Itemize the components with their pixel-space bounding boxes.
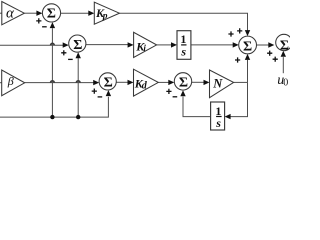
svg-text:s: s — [215, 116, 221, 130]
wire N to node — [234, 81, 248, 83]
gain block N — [210, 70, 234, 98]
wire integrator to S5 — [191, 44, 233, 46]
wire S3 to Kd — [116, 81, 128, 83]
wire y input row4 to S3 minus — [0, 97, 108, 117]
wire S2 to Ki — [86, 44, 128, 46]
arrowhead into S5 bottom — [245, 54, 250, 60]
arrowhead into S6 bottom — [281, 51, 286, 57]
arrowhead into S4 bottom — [180, 90, 185, 96]
arrowhead into integrator — [171, 42, 177, 47]
arrowhead into S5 left — [233, 42, 239, 47]
sign minus S4 bottom — [173, 96, 178, 98]
wire feedback 1/s out to S4 minus — [183, 97, 211, 117]
wire S4 to N — [192, 81, 204, 83]
arrowhead into feedback 1/s — [225, 114, 231, 119]
arrowhead into S2 left — [63, 42, 69, 47]
gain block alpha — [2, 2, 25, 25]
sign plus S4 left — [166, 89, 171, 94]
sign plus S3 left — [92, 89, 97, 94]
sign plus S1 left — [36, 18, 41, 23]
sign plus S5 top — [237, 28, 242, 33]
gain block beta — [2, 70, 25, 96]
sign minus S3 bottom — [98, 96, 103, 98]
svg-text:Σ: Σ — [280, 39, 289, 54]
wire node down to 1/s feedback — [231, 82, 248, 116]
svg-text:α: α — [6, 6, 15, 22]
wire node up to S5 bottom — [247, 60, 249, 83]
arrowhead into S4 left — [168, 80, 174, 85]
summing junction S3 — [99, 73, 116, 91]
arrowhead into Ki — [128, 42, 134, 47]
summing junction S4 — [174, 73, 191, 91]
summing junction S5 — [239, 36, 257, 55]
summing junction S6 — [276, 34, 292, 53]
junction dot row4 x52 — [50, 115, 54, 119]
svg-text:Σ: Σ — [179, 76, 188, 91]
arrowhead into Kd — [128, 80, 134, 85]
sign minus S1 bottom — [42, 26, 47, 28]
integrator block 1/s — [177, 31, 191, 60]
junction dot row4 x78 — [76, 115, 80, 119]
hop crossing row2 x52 — [50, 43, 54, 45]
sign plus S6 left — [267, 51, 272, 56]
arrowhead into Kp — [88, 11, 94, 16]
arrowhead into N — [204, 80, 210, 85]
svg-text:β: β — [7, 74, 14, 88]
arrowhead into S6 left — [268, 42, 274, 47]
gain block Kd — [134, 69, 159, 96]
svg-text:p: p — [102, 11, 108, 21]
arrowhead into S1 left — [36, 11, 42, 16]
gain block Ki — [134, 32, 157, 57]
wire S5 to S6 — [257, 44, 270, 46]
svg-text:N: N — [212, 76, 223, 90]
summing junction S1 — [42, 4, 60, 22]
arrowhead into S3 bottom — [106, 90, 111, 96]
gain block Kp — [94, 2, 119, 24]
sign plus S5 bottom — [235, 57, 240, 62]
wire vertical y to S2 minus — [77, 58, 79, 117]
sign minus S2 bottom — [68, 58, 73, 60]
wire vertical y to S1 minus — [51, 28, 53, 117]
arrowhead into S5 top — [245, 30, 250, 36]
sign plus S5 left — [228, 31, 233, 36]
summing junction S2 — [69, 35, 86, 53]
arrowhead into S2 bottom — [76, 52, 81, 58]
wire S1 to Kp — [61, 12, 89, 14]
sign plus S2 left — [61, 50, 66, 55]
svg-text:Σ: Σ — [104, 76, 113, 91]
feedback integrator block 1/s — [211, 102, 225, 130]
svg-text:Σ: Σ — [73, 38, 82, 53]
wire r input row2 — [0, 44, 63, 46]
sign plus S6 bottom — [273, 57, 278, 62]
hop crossing row3 x52 — [50, 81, 54, 83]
wire Kd to S4 — [158, 81, 169, 83]
wire Kp to S5 top — [119, 13, 247, 31]
wire u0 to S6 bottom — [282, 57, 284, 73]
label u0 — [277, 73, 288, 88]
wire beta to S3 — [25, 82, 94, 84]
svg-text:s: s — [180, 44, 186, 58]
wire Ki to integrator — [157, 44, 172, 46]
svg-text:Σ: Σ — [47, 7, 56, 22]
svg-text:0: 0 — [283, 78, 288, 89]
wire r input row1 stub — [0, 12, 2, 14]
wire r input row3 stub — [0, 82, 2, 84]
arrowhead into S1 bottom — [50, 22, 55, 28]
svg-text:Σ: Σ — [243, 40, 252, 55]
hop crossing row3 x78 — [76, 81, 80, 83]
wire alpha to S1 — [24, 12, 37, 14]
arrowhead into S3 left — [93, 80, 99, 85]
